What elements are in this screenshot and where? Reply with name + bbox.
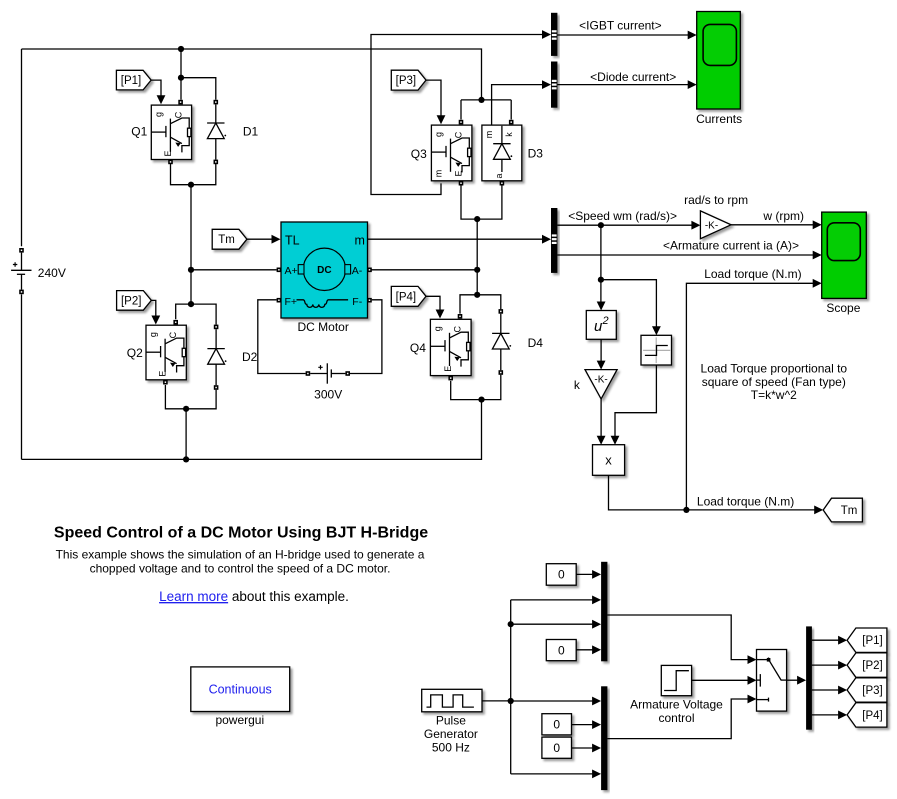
label Pulse Generator 500 Hz [424, 713, 478, 754]
svg-text:C: C [454, 131, 464, 138]
svg-text:Generator: Generator [424, 727, 478, 741]
wire bus selector 1 to Currents scope [557, 31, 696, 40]
wire P2 to Q2 gate [151, 300, 160, 324]
svg-text:square of speed (Fan type): square of speed (Fan type) [702, 375, 846, 389]
label Armature Voltage control [630, 698, 723, 726]
wire step to switch input 2 [692, 676, 757, 685]
wire branch to D4 cathode [477, 295, 501, 309]
label Scope [826, 301, 860, 315]
svg-text:This example shows the simulat: This example shows the simulation of an … [56, 547, 425, 561]
node junction top rail above Q1 [178, 46, 184, 52]
constant 0 block 3 [542, 714, 572, 735]
svg-text:0: 0 [558, 643, 565, 657]
constant 0 block 2 [546, 640, 576, 661]
wire battery - down to bottom rail [21, 294, 23, 459]
goto tag P2 [847, 653, 887, 677]
svg-text:DC Motor: DC Motor [298, 320, 349, 334]
label Currents [696, 112, 742, 126]
wire constant 2 to mux1 input 4 [576, 645, 601, 654]
svg-text:powergui: powergui [215, 713, 264, 727]
wire branch to Q2 collector [176, 304, 191, 319]
pulse generator block [422, 689, 482, 712]
svg-text:500 Hz: 500 Hz [432, 740, 470, 754]
svg-text:rad/s to rpm: rad/s to rpm [684, 193, 748, 207]
wire demux to goto P4 [812, 711, 847, 720]
svg-text:control: control [658, 711, 694, 725]
node junction above Q3/D3 [478, 97, 484, 103]
label Q4 [410, 341, 426, 355]
svg-text:k: k [574, 378, 581, 392]
product block x [593, 445, 625, 476]
goto tag P4 [847, 703, 887, 727]
wire Tm to motor TL [247, 235, 281, 244]
scope Scope [822, 212, 867, 298]
diode D1 [207, 100, 226, 164]
bus selector 1 (IGBT current) [551, 13, 557, 56]
wire Q1 collector drop [180, 49, 182, 100]
annotation Load Torque proportional [701, 362, 848, 403]
svg-text:300V: 300V [314, 387, 342, 401]
wire feeder vertical [510, 600, 512, 774]
svg-text:[P2]: [P2] [862, 660, 882, 672]
svg-text:-K-: -K- [705, 221, 718, 232]
scope Currents [697, 12, 741, 110]
svg-text:x: x [605, 452, 612, 467]
node junction below Q4/D4 [478, 397, 484, 403]
svg-text:[P1]: [P1] [862, 635, 882, 647]
svg-text:[P1]: [P1] [121, 75, 141, 87]
svg-text:Load torque (N.m): Load torque (N.m) [697, 494, 794, 508]
svg-text:C: C [168, 331, 178, 338]
svg-text:Load torque (N.m): Load torque (N.m) [704, 267, 801, 281]
saturation block [641, 335, 672, 365]
goto tag Tm [823, 498, 862, 522]
wire Q3 collector stub [460, 100, 462, 120]
signal label Load torque to scope [704, 267, 801, 281]
wire P4 to Q4 gate [426, 296, 444, 318]
wire motor F+ to 300V battery + [258, 300, 306, 374]
svg-text:D2: D2 [242, 350, 258, 364]
label rad/s to rpm [684, 193, 748, 207]
mux 2 [601, 686, 607, 790]
svg-text:<IGBT current>: <IGBT current> [579, 19, 661, 33]
bus selector 3 (speed / armature current) [551, 208, 557, 273]
from tag [P4] [391, 286, 426, 306]
svg-text:g: g [148, 332, 158, 337]
wire P1 to Q1 gate [151, 80, 165, 104]
svg-text:TL: TL [285, 233, 300, 247]
goto tag P1 [847, 628, 887, 652]
node junction below Q1 [188, 182, 194, 188]
svg-text:Q4: Q4 [410, 341, 426, 355]
label powergui [215, 713, 264, 727]
wire Q2 emitter to D2 anode join [165, 385, 216, 409]
diode D4 [492, 309, 511, 375]
svg-text:E: E [163, 150, 173, 156]
svg-text:E: E [454, 170, 464, 176]
wire feeder to mux1 input 3 [511, 620, 601, 629]
wire load torque to Scope input 3 [686, 279, 821, 510]
wire branch to saturation [601, 280, 661, 336]
value label 240V [38, 266, 66, 280]
diode D3 boxed with measurement [482, 120, 522, 186]
svg-text:F-: F- [352, 296, 362, 308]
svg-text:m: m [355, 233, 365, 247]
wire product to Tm goto [609, 475, 824, 514]
wire branch to Q4 collector [460, 295, 477, 314]
svg-text:-K-: -K- [594, 375, 607, 386]
svg-text:[P3]: [P3] [862, 685, 882, 697]
svg-text:Tm: Tm [218, 234, 235, 246]
svg-text:T=k*w^2: T=k*w^2 [751, 388, 797, 402]
wire switch to demux [787, 676, 807, 685]
svg-text:DC: DC [317, 265, 331, 276]
label D3 [528, 147, 544, 161]
signal label Diode current [590, 70, 676, 84]
svg-text:Speed Control of a DC Motor Us: Speed Control of a DC Motor Using BJT H-… [54, 525, 428, 542]
node junction load torque [683, 507, 689, 513]
wire constant 4 to mux2 input 3 [572, 744, 602, 753]
node junction Q1/D1 branch [178, 75, 184, 81]
node junction at A+ line [188, 267, 194, 273]
svg-text:<Diode current>: <Diode current> [590, 70, 676, 84]
wire Q1 emitter to D1 anode join [171, 164, 216, 185]
powergui block [191, 667, 290, 712]
node junction below Q3/D3 [474, 216, 480, 222]
diode D2 [207, 325, 226, 390]
annotation learn more link [159, 589, 349, 604]
svg-text:Tm: Tm [841, 505, 858, 517]
transistor Q3 IGBT with measurement [431, 120, 472, 186]
svg-text:E: E [158, 371, 168, 377]
wire armature current to Scope input 2 [557, 251, 821, 260]
goto tag P3 [847, 678, 887, 702]
svg-text:240V: 240V [38, 266, 66, 280]
wire branch to D1 cathode [181, 78, 216, 100]
wire pulse generator to feeder [482, 700, 511, 702]
wire demux to goto P2 [812, 661, 847, 670]
constant 0 block 1 [546, 564, 576, 586]
wire top rail branch down to Q3/D3 collector node [461, 99, 511, 101]
svg-text:Q2: Q2 [127, 346, 143, 360]
svg-text:F+: F+ [285, 296, 298, 308]
svg-text:a: a [494, 173, 504, 178]
battery B1 240V DC voltage source [11, 248, 31, 294]
label D1 [243, 125, 259, 139]
svg-text:k: k [504, 132, 514, 137]
wire constant 1 to mux1 input 1 [576, 570, 601, 579]
svg-text:m: m [484, 131, 494, 139]
wire H-bridge right mid vertical [476, 219, 478, 295]
svg-text:m: m [434, 170, 444, 178]
node junction feeder pulse [508, 698, 514, 704]
node junction Q4/D4 branch [474, 292, 480, 298]
battery B2 300V DC voltage source [306, 363, 350, 383]
svg-text:Q3: Q3 [411, 147, 427, 161]
svg-text:D3: D3 [528, 147, 544, 161]
svg-text:2: 2 [602, 315, 609, 327]
svg-text:[P4]: [P4] [862, 710, 882, 722]
signal label IGBT current [579, 19, 661, 33]
svg-text:C: C [453, 325, 463, 332]
wire u2 to gain k [597, 339, 606, 369]
transistor Q1 IGBT [151, 100, 191, 164]
wire gain k to product [597, 399, 606, 445]
wire P3 to Q3 gate [426, 80, 445, 124]
svg-text:0: 0 [558, 568, 565, 582]
svg-text:chopped voltage and to control: chopped voltage and to control the speed… [90, 562, 391, 576]
svg-text:Armature Voltage: Armature Voltage [630, 698, 723, 712]
wire motor A- to right leg [372, 269, 478, 271]
step block Armature Voltage control [661, 665, 691, 695]
wire gain to Scope input 1 [731, 220, 822, 229]
node junction u2 / saturation branch [598, 277, 604, 283]
node junction feeder mux1 input3 [508, 621, 514, 627]
wire D3 measurement to bus selector 2 [492, 80, 551, 125]
label k [574, 378, 581, 392]
svg-text:Currents: Currents [696, 112, 742, 126]
svg-text:Learn more about this example.: Learn more about this example. [159, 589, 349, 604]
switch block [757, 650, 787, 712]
transistor Q4 IGBT [430, 314, 471, 380]
svg-text:0: 0 [553, 718, 560, 732]
svg-text:<Armature current ia (A)>: <Armature current ia (A)> [663, 238, 799, 252]
wire motor F- to 300V battery - [350, 300, 382, 374]
wire Q3 measurement loop to bus selector 1 [371, 30, 551, 194]
label Q1 [131, 125, 147, 139]
wire saturation to product [611, 365, 657, 445]
wire bus selector 2 to Currents scope [557, 80, 696, 89]
wire mux2 to switch input 3 [607, 695, 756, 739]
math function u^2 block [586, 311, 616, 340]
wire D3 cathode stub [510, 100, 512, 120]
signal label Speed wm [568, 209, 677, 223]
DC Motor block [277, 222, 372, 318]
wire speed wm to gain [557, 221, 700, 230]
svg-text:w (rpm): w (rpm) [762, 209, 804, 223]
wire left vertical battery + feed [21, 49, 23, 246]
wire feeder to mux1 input 2 [511, 596, 601, 605]
wire H-bridge left mid vertical [190, 185, 192, 304]
wire to motor A+ [191, 269, 277, 271]
svg-text:g: g [154, 112, 164, 117]
wire bottom rail [22, 402, 482, 459]
wire branch to u2 [597, 280, 606, 311]
bus selector 2 (Diode current) [551, 62, 557, 108]
svg-text:<Speed wm (rad/s)>: <Speed wm (rad/s)> [568, 209, 677, 223]
svg-text:Continuous: Continuous [209, 683, 272, 697]
from tag [P3] [391, 70, 426, 90]
node junction bottom rail Q2 leg [183, 456, 189, 462]
annotation title [54, 525, 428, 542]
wire Q3 emitter to D3 anode join [461, 186, 502, 220]
svg-text:D4: D4 [528, 336, 544, 350]
constant 0 block 4 [542, 737, 572, 758]
from tag [P2] [117, 291, 152, 311]
wire mux1 to switch input 1 [607, 615, 756, 664]
svg-text:Q1: Q1 [131, 125, 147, 139]
from tag Tm [212, 229, 247, 249]
svg-text:A-: A- [352, 265, 363, 277]
svg-text:Scope: Scope [826, 301, 860, 315]
svg-text:D1: D1 [243, 125, 259, 139]
gain k [585, 370, 617, 399]
wire speed branch down [600, 225, 602, 280]
node junction at A- line [474, 267, 480, 273]
from tag [P1] [116, 70, 151, 90]
svg-text:[P4]: [P4] [396, 291, 416, 303]
svg-text:C: C [174, 111, 184, 118]
svg-text:Load Torque proportional to: Load Torque proportional to [701, 362, 848, 376]
label D4 [528, 336, 544, 350]
transistor Q2 IGBT [146, 320, 186, 385]
svg-text:Pulse: Pulse [436, 713, 466, 727]
svg-text:E: E [443, 366, 453, 372]
wire demux to goto P3 [812, 686, 847, 695]
wire branch to D2 cathode [191, 304, 216, 325]
wire top rail from battery + to H-bridge top [22, 49, 482, 100]
demux [806, 626, 812, 729]
svg-text:[P3]: [P3] [396, 75, 416, 87]
label D2 [242, 350, 258, 364]
wire Q4 emitter to D4 anode join [451, 375, 501, 400]
wire feeder to mux2 input 1 [511, 697, 601, 706]
svg-text:0: 0 [553, 741, 560, 755]
signal label Armature current [663, 238, 799, 252]
svg-text:g: g [433, 326, 443, 331]
mux 1 [601, 562, 607, 662]
node junction Q2/D2 branch [188, 301, 194, 307]
wire constant 3 to mux2 input 2 [572, 720, 602, 729]
label Q3 [411, 147, 427, 161]
annotation description [56, 547, 425, 575]
svg-text:g: g [434, 132, 444, 137]
wire feeder to mux2 input 4 [511, 770, 601, 779]
label Q2 [127, 346, 143, 360]
wire demux to goto P1 [812, 636, 847, 645]
svg-text:A+: A+ [285, 265, 298, 277]
wire Q2 leg down to bottom rail [185, 409, 187, 460]
node junction speed branch [598, 222, 604, 228]
gain rad/s to rpm [700, 211, 731, 239]
signal label w (rpm) [762, 209, 804, 223]
value label 300V [314, 387, 342, 401]
label DC Motor [298, 320, 349, 334]
signal label Load torque bottom [697, 494, 794, 508]
svg-text:[P2]: [P2] [121, 295, 141, 307]
wire motor m to bus selector 3 [368, 235, 552, 244]
node junction below Q2 [183, 406, 189, 412]
